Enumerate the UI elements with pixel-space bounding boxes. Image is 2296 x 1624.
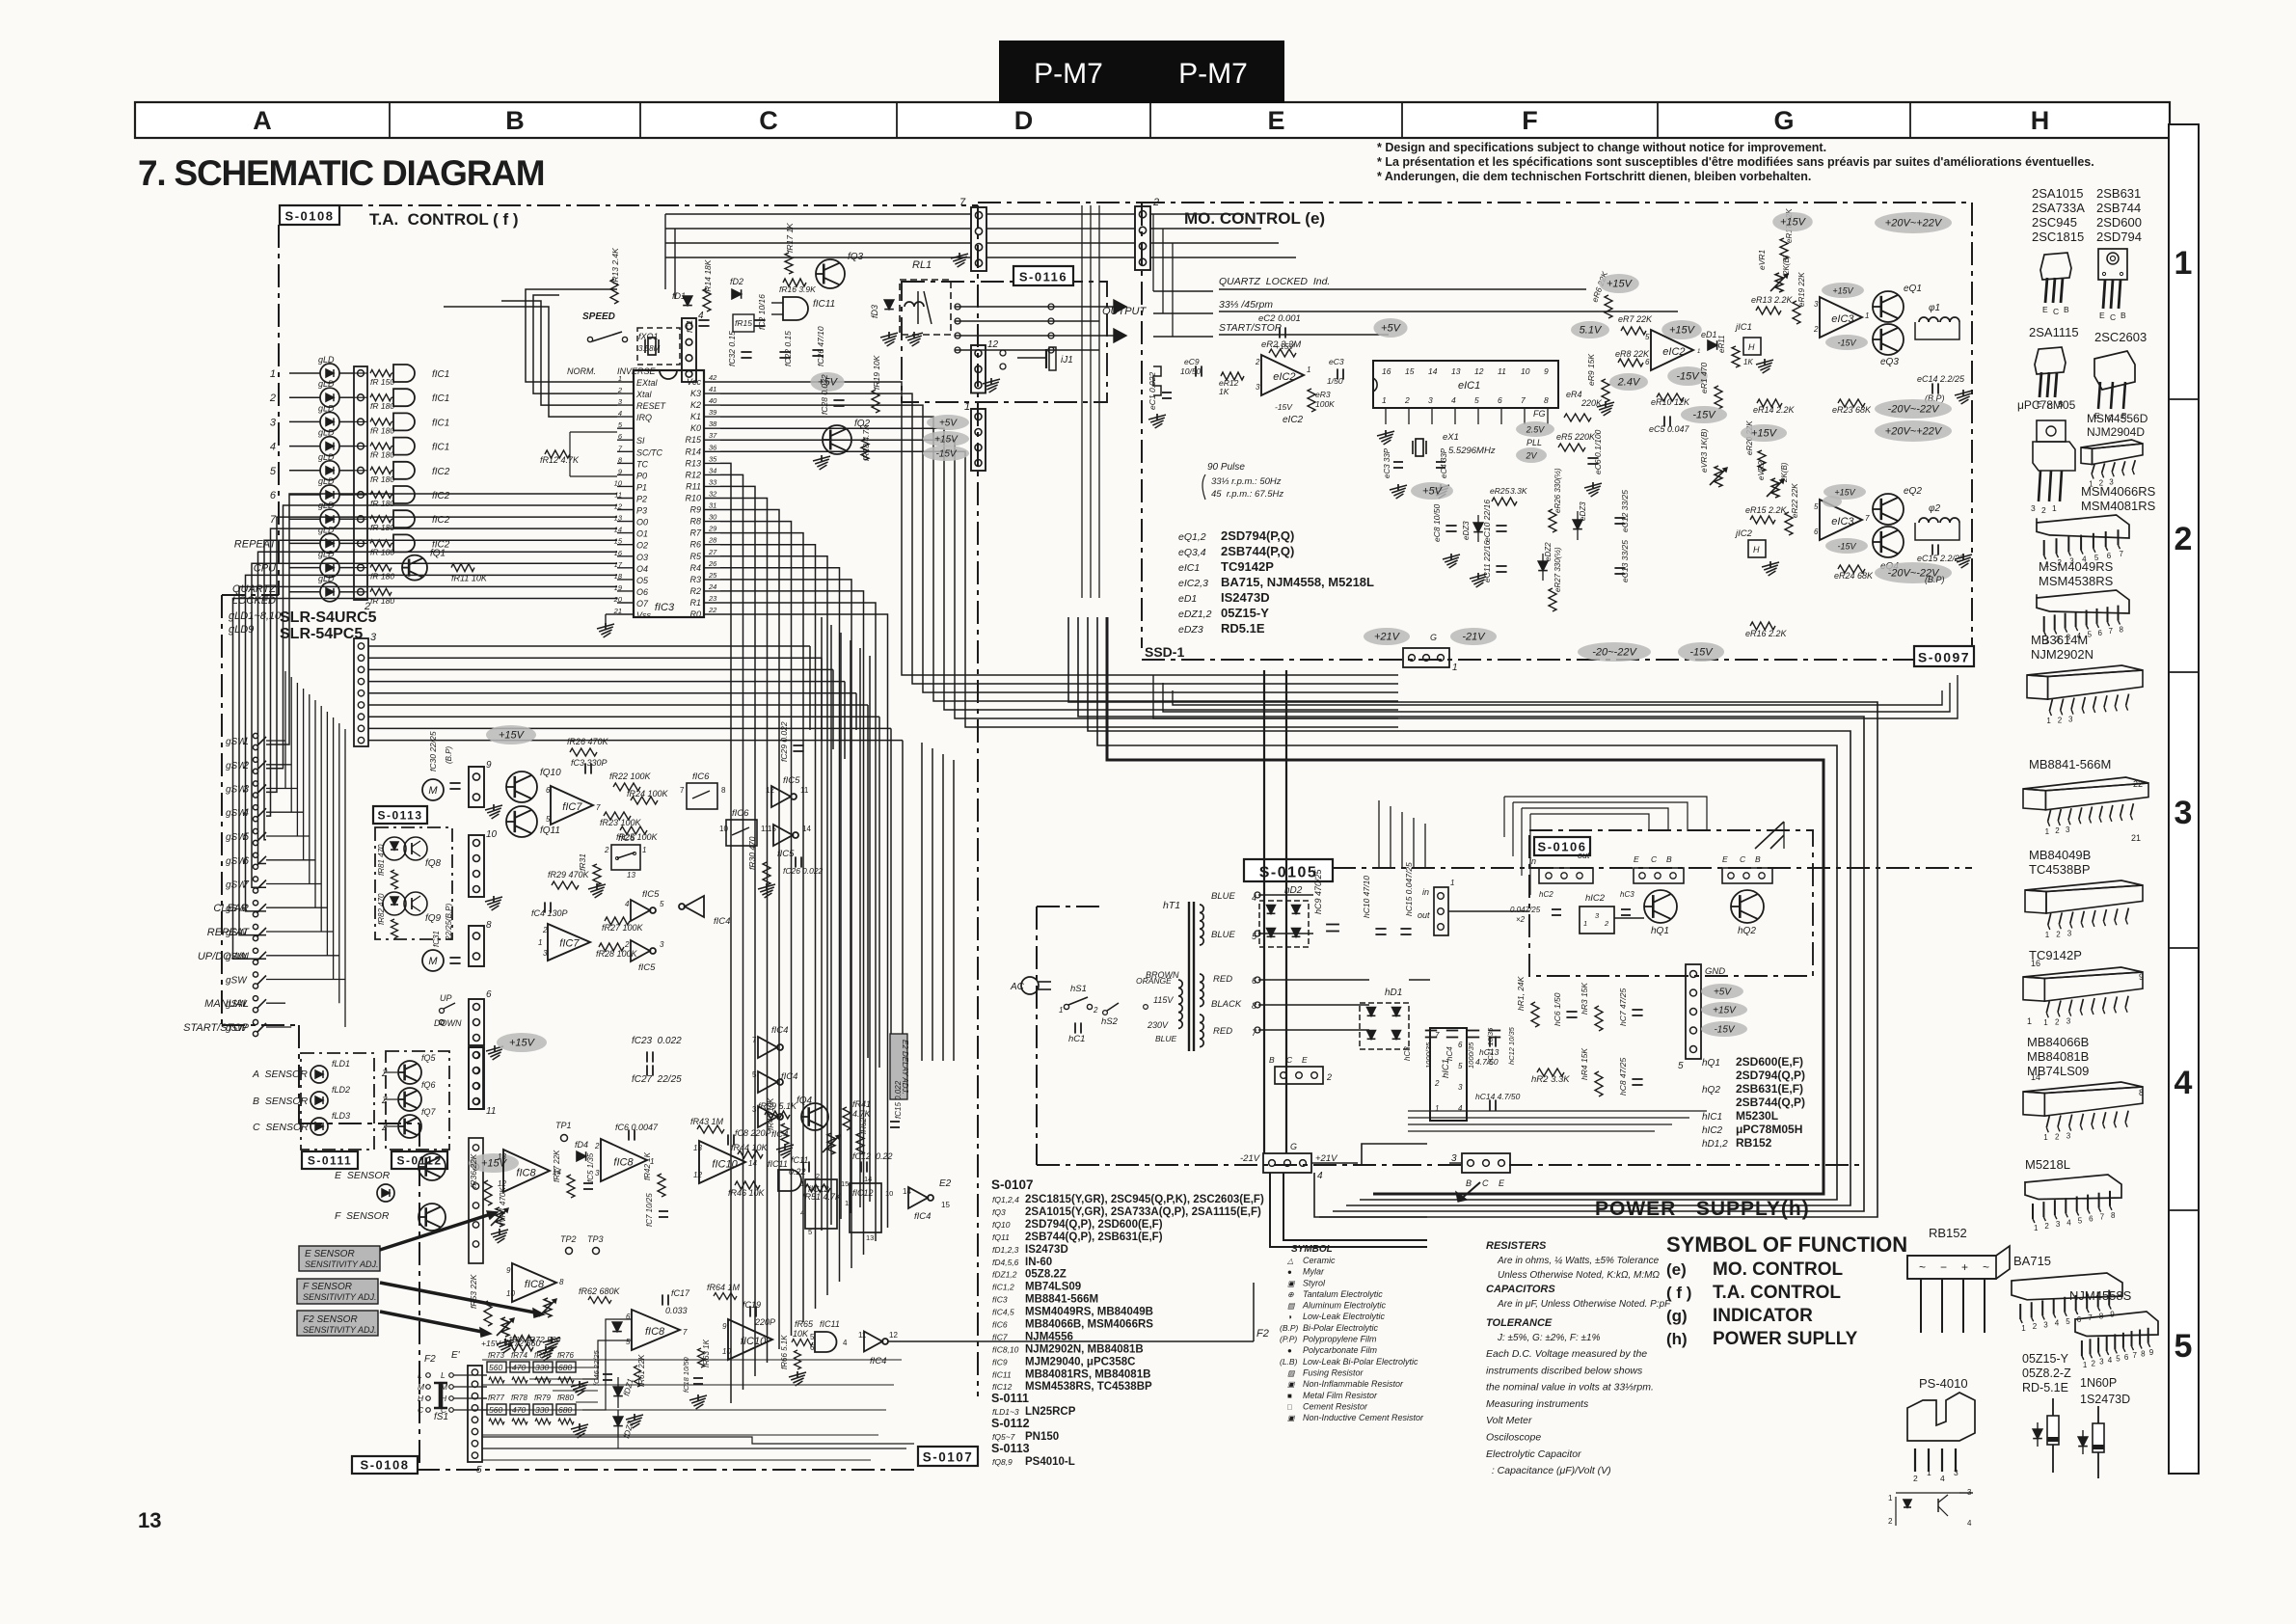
wire corner y1262 — [1314, 1173, 1427, 1217]
antenna mark power — [1755, 822, 1784, 849]
svg-text:S-0111: S-0111 — [991, 1392, 1029, 1405]
fIC3 pin 26 R4 — [704, 567, 720, 569]
svg-text:fR77: fR77 — [488, 1394, 504, 1402]
ground fQ2 — [813, 456, 830, 461]
svg-text:A: A — [253, 106, 272, 135]
svg-text:eR1 470: eR1 470 — [1699, 363, 1709, 393]
svg-text:eR10 12K: eR10 12K — [1651, 397, 1690, 407]
resistor fR61 22K — [635, 1366, 641, 1387]
svg-text:eR15 2.2K: eR15 2.2K — [1745, 505, 1788, 515]
svg-text:fR22 100K: fR22 100K — [609, 771, 652, 781]
label S-0107 bottom — [918, 1447, 978, 1466]
svg-text:C: C — [2053, 307, 2059, 316]
op-amp eIC2 b — [1651, 330, 1693, 370]
svg-text:2: 2 — [1604, 919, 1609, 928]
svg-text:fIC7: fIC7 — [562, 801, 582, 813]
svg-text:fD1,2,3: fD1,2,3 — [992, 1245, 1019, 1255]
svg-text:eC9: eC9 — [1184, 357, 1200, 366]
transistor eQ3 — [1873, 324, 1904, 355]
svg-text:-15V: -15V — [1692, 410, 1716, 421]
resistor fR18 4.7K — [861, 439, 869, 460]
svg-text:6: 6 — [2124, 1353, 2129, 1362]
diode eD1 — [1708, 340, 1717, 350]
board boundary S-0108 T.A. control outline — [339, 204, 978, 206]
resistor eR13 2.2K — [1756, 307, 1781, 314]
svg-text:220P: 220P — [754, 1317, 775, 1327]
resistor eR12 1K — [1221, 372, 1244, 380]
svg-text:Low-Leak Electrolytic: Low-Leak Electrolytic — [1303, 1312, 1386, 1321]
capacitor fC8 220P — [727, 1134, 729, 1145]
connector 9 — [469, 767, 484, 807]
svg-text:eC13 33/25: eC13 33/25 — [1620, 540, 1630, 582]
resistor fR42 1K — [658, 1174, 665, 1197]
fIC3 pin 33 R11 — [704, 485, 720, 487]
svg-text:D: D — [1014, 106, 1034, 135]
svg-text:hT1: hT1 — [1163, 900, 1180, 911]
svg-text:(h): (h) — [1666, 1330, 1688, 1348]
svg-text:30: 30 — [709, 513, 717, 522]
svg-text:BA715, NJM4558, M5218L: BA715, NJM4558, M5218L — [1221, 575, 1374, 589]
connector E C B hQ1 — [1634, 868, 1684, 883]
svg-text:2SD600: 2SD600 — [2096, 215, 2142, 230]
svg-text:Z: Z — [381, 1123, 388, 1132]
svg-text:4: 4 — [270, 442, 276, 453]
capacitor eC3 33P — [1393, 461, 1403, 463]
fIC3 pin 23 R1 — [704, 602, 720, 604]
svg-text:S-0108: S-0108 — [285, 209, 335, 224]
fIC3 pin 41 K3 — [704, 392, 720, 394]
svg-text:gLD: gLD — [318, 476, 335, 486]
board S-0116 outline — [902, 282, 1107, 402]
svg-text:eC3: eC3 — [1329, 357, 1344, 366]
svg-text:10: 10 — [486, 829, 498, 840]
svg-text:fR74: fR74 — [511, 1351, 527, 1360]
board S-0106 outline — [1529, 830, 1813, 976]
svg-text:hC4: hC4 — [1445, 1046, 1454, 1061]
svg-text:0.033: 0.033 — [665, 1306, 688, 1315]
svg-text:fIC4: fIC4 — [771, 1025, 788, 1036]
svg-text:Vss: Vss — [636, 610, 652, 620]
ground connector 9 — [485, 805, 502, 810]
+15V blob phase2 — [1741, 424, 1787, 442]
svg-text:2: 2 — [594, 1142, 600, 1150]
svg-text:Cement Resistor: Cement Resistor — [1303, 1402, 1368, 1412]
svg-text:hC3: hC3 — [1620, 890, 1634, 899]
-20V blob bottom — [1578, 642, 1651, 662]
bridge rectifier hD1 — [1360, 1003, 1409, 1049]
resistor fR81 470 — [392, 870, 398, 889]
svg-text:SI: SI — [636, 436, 645, 446]
svg-text:fC15 0.022: fC15 0.022 — [894, 1080, 903, 1119]
NAND gate fIC1 section 4 — [393, 438, 415, 455]
resistor fR40 10K — [781, 1123, 789, 1145]
svg-text:+20V~+22V: +20V~+22V — [1885, 426, 1943, 438]
svg-text:eIC2: eIC2 — [1273, 371, 1295, 383]
capacitor fC3 330P — [584, 763, 586, 773]
svg-text:fC19: fC19 — [743, 1300, 761, 1310]
svg-text:13: 13 — [614, 514, 623, 523]
svg-text:Unless Otherwise Noted, K:kΩ,: Unless Otherwise Noted, K:kΩ, M:MΩ — [1498, 1270, 1660, 1281]
svg-text:5: 5 — [1458, 1062, 1463, 1070]
svg-text:eR22 22K: eR22 22K — [1791, 483, 1799, 518]
diode fD3 — [884, 300, 894, 310]
wire bus fIC3 right fan to bottom — [720, 463, 731, 1403]
svg-text:25: 25 — [708, 571, 717, 580]
package DIP16 MB84049B — [2025, 880, 2143, 892]
op-amp fIC10 b — [728, 1319, 772, 1360]
svg-text:fR27 100K: fR27 100K — [602, 923, 644, 933]
svg-text:hD1: hD1 — [1385, 988, 1402, 998]
label box S-0116 — [1013, 266, 1073, 285]
wire bus S-0106 nest — [1503, 797, 1505, 837]
svg-text:eIC3: eIC3 — [1831, 313, 1854, 325]
label box S-0105 — [1244, 859, 1333, 881]
svg-text:+15V: +15V — [934, 435, 959, 446]
svg-text:2.4V: 2.4V — [1617, 377, 1641, 389]
op-amp eIC2 a — [1261, 355, 1304, 395]
svg-text:9: 9 — [2149, 1348, 2154, 1357]
svg-text:fC7 10/25: fC7 10/25 — [645, 1193, 654, 1227]
diode fD5 — [612, 1322, 622, 1332]
svg-text:3: 3 — [2031, 503, 2036, 513]
svg-text:G: G — [1290, 1142, 1297, 1151]
svg-text:11: 11 — [614, 491, 622, 500]
svg-text:+5V: +5V — [1381, 323, 1402, 335]
svg-text:fR14 18K: fR14 18K — [703, 259, 713, 294]
svg-text:hQ1: hQ1 — [1702, 1058, 1720, 1069]
svg-text:fD1: fD1 — [672, 291, 686, 301]
svg-text:8: 8 — [2111, 1211, 2116, 1220]
connector strip 3 indicator — [354, 638, 368, 746]
switch gSW5 — [253, 828, 257, 833]
svg-text:Aluminum Electrolytic: Aluminum Electrolytic — [1302, 1301, 1387, 1311]
LED gLD7 — [320, 509, 339, 528]
svg-text:fQ3: fQ3 — [992, 1207, 1006, 1217]
svg-text:B: B — [2120, 311, 2126, 320]
wire power bus internal — [1409, 979, 1430, 981]
svg-text:gLD: gLD — [318, 355, 335, 365]
svg-text:A SENSOR: A SENSOR — [252, 1069, 308, 1080]
LED gLD5 — [320, 461, 339, 480]
E sensor sensitivity adj gray box — [299, 1246, 380, 1271]
resistor fR37 22K — [567, 1175, 575, 1198]
svg-text:+15V: +15V — [499, 730, 526, 742]
svg-text:hC1: hC1 — [1068, 1034, 1085, 1044]
svg-text:(e): (e) — [1666, 1260, 1687, 1279]
resistor fR29 470K — [552, 881, 579, 889]
svg-text:7: 7 — [2109, 627, 2114, 636]
svg-text:RL1: RL1 — [912, 259, 932, 271]
resistor fR39 5.1K — [765, 1111, 790, 1119]
svg-text:IN-60: IN-60 — [1025, 1257, 1052, 1268]
zener eDZ3b — [1573, 520, 1582, 529]
svg-text:* Anderungen, die dem technisc: * Anderungen, die dem technischen Fortsc… — [1377, 170, 1811, 183]
switch gSW3 — [253, 781, 257, 786]
svg-text:1: 1 — [2174, 245, 2193, 282]
svg-text:2: 2 — [604, 846, 609, 854]
svg-text:8: 8 — [559, 1278, 564, 1286]
svg-text:K1: K1 — [690, 412, 701, 421]
svg-text:fC18 10/50: fC18 10/50 — [682, 1356, 690, 1393]
svg-text:fR76: fR76 — [557, 1351, 574, 1360]
svg-text:fIC8: fIC8 — [516, 1167, 536, 1178]
svg-text:TP3: TP3 — [587, 1234, 604, 1244]
svg-text:fLD1: fLD1 — [332, 1059, 350, 1069]
IC eIC1 TC9142P body — [1373, 361, 1558, 408]
svg-text:MB84066B: MB84066B — [2027, 1035, 2089, 1049]
svg-text:fR39 5.1K: fR39 5.1K — [758, 1101, 797, 1111]
svg-text:3.3K: 3.3K — [1510, 486, 1527, 496]
svg-text:fC11: fC11 — [791, 1155, 808, 1165]
diode fD4 — [577, 1151, 586, 1161]
svg-text:5: 5 — [626, 1338, 631, 1346]
svg-text:gLD1~8,10: gLD1~8,10 — [229, 610, 282, 622]
svg-text:NJM2902N, MB84081B: NJM2902N, MB84081B — [1025, 1343, 1144, 1355]
zener fDZ1 — [613, 1387, 623, 1396]
svg-text:eC14 2.2/25: eC14 2.2/25 — [1917, 374, 1965, 384]
svg-text:eQ3,4: eQ3,4 — [1178, 547, 1206, 558]
svg-text:7: 7 — [683, 1328, 688, 1337]
ground resistor banks — [571, 1382, 588, 1387]
svg-text:33: 33 — [709, 477, 717, 486]
svg-text:fC23 0.022: fC23 0.022 — [632, 1036, 682, 1046]
LED fLD1 — [311, 1066, 328, 1083]
svg-text:fQ8: fQ8 — [425, 858, 442, 869]
svg-text:fR15: fR15 — [735, 318, 752, 328]
+15V blob eIC3 — [1822, 283, 1864, 298]
switch gSW1 — [253, 733, 257, 738]
resistor fR36 22K — [484, 1180, 492, 1205]
board S-0111 outline — [301, 1053, 374, 1150]
resistor fR19 10K — [872, 390, 879, 413]
capacitor fC4 130P — [544, 902, 546, 912]
svg-text:PLL: PLL — [1526, 438, 1542, 447]
eIC1 pin 1 — [1385, 408, 1387, 424]
svg-text:14: 14 — [802, 825, 811, 833]
svg-text:M5230L: M5230L — [1736, 1109, 1778, 1123]
svg-text:IS2473D: IS2473D — [1025, 1244, 1068, 1256]
+20V blob phase2 — [1875, 420, 1952, 442]
NAND gate fIC1 section 3 — [393, 413, 415, 430]
svg-text:fC28 0.022: fC28 0.022 — [820, 374, 829, 415]
fIC3 pin 24 R2 — [704, 590, 720, 592]
op-amp fIC7 b — [548, 924, 590, 961]
svg-text:6: 6 — [2098, 629, 2103, 637]
svg-text:2: 2 — [1404, 395, 1410, 405]
ground relay — [880, 333, 898, 338]
svg-text:S-0113: S-0113 — [991, 1442, 1030, 1455]
resistor fR24 100K — [631, 797, 658, 804]
svg-text:fQ1: fQ1 — [430, 549, 446, 559]
svg-text:fR78: fR78 — [511, 1394, 527, 1402]
wire power frame left verticals — [921, 743, 923, 1061]
svg-text:O3: O3 — [636, 553, 648, 562]
svg-text:QUARTZ LOCKED Ind.: QUARTZ LOCKED Ind. — [1219, 276, 1330, 287]
package DIP8 3D — [2081, 440, 2143, 448]
connector 4 speed — [682, 318, 696, 382]
fIC3 pin 4 IRQ — [617, 416, 634, 418]
package TO-220 uPC78M05 — [2037, 420, 2066, 442]
svg-text:13: 13 — [866, 1233, 874, 1242]
svg-text:2SD794(Q,P), 2SD600(E,F): 2SD794(Q,P), 2SD600(E,F) — [1025, 1219, 1163, 1231]
svg-text:-20V~-22V: -20V~-22V — [1888, 404, 1941, 416]
svg-text:Are in ohms, ¼ Watts, ±5% Tole: Are in ohms, ¼ Watts, ±5% Tolerance — [1497, 1255, 1660, 1266]
resistor fR17 1K — [785, 253, 793, 274]
svg-text:eIC1: eIC1 — [1178, 562, 1200, 574]
svg-text:6: 6 — [810, 1343, 815, 1352]
+15V blob eR6 — [1599, 274, 1639, 293]
svg-text:3: 3 — [1256, 383, 1260, 392]
svg-text:hC7 47/25: hC7 47/25 — [1618, 988, 1628, 1026]
svg-text:1: 1 — [2045, 827, 2050, 836]
svg-text:fIC11: fIC11 — [992, 1369, 1012, 1379]
svg-text:Fusing Resistor: Fusing Resistor — [1303, 1368, 1364, 1378]
resistor hR4 15K — [1595, 1071, 1603, 1096]
svg-text:42: 42 — [709, 373, 717, 382]
svg-text:5: 5 — [752, 1070, 757, 1079]
LED fLD3 — [311, 1118, 328, 1135]
svg-text:fIC8,10: fIC8,10 — [992, 1344, 1019, 1354]
resistor hR1 24K — [1531, 1002, 1539, 1027]
svg-text:3: 3 — [2066, 1017, 2071, 1026]
svg-text:MB84081RS, MB84081B: MB84081RS, MB84081B — [1025, 1368, 1150, 1380]
svg-text:E: E — [1499, 1178, 1505, 1188]
svg-text:Measuring instruments: Measuring instruments — [1486, 1398, 1589, 1410]
svg-text:fIC8: fIC8 — [613, 1156, 634, 1168]
svg-text:-15V: -15V — [1837, 542, 1856, 552]
right row ruler — [2169, 124, 2199, 1474]
wire bus 21V rails to connector 4 — [1263, 670, 1265, 1153]
board S-0105 outline — [1333, 867, 1972, 869]
+15V blob eIC2b — [1661, 320, 1702, 339]
svg-text:5: 5 — [2088, 631, 2093, 639]
svg-text:RD5.1E: RD5.1E — [1221, 621, 1265, 636]
wire corner y1186 — [1362, 1144, 1427, 1165]
svg-text:MSM4538RS: MSM4538RS — [2039, 574, 2114, 588]
wire bus MO to power supply wrap frame — [1068, 617, 1877, 1217]
svg-text:R11: R11 — [686, 481, 701, 491]
connector 6 — [469, 999, 484, 1045]
svg-text:1: 1 — [2052, 503, 2057, 513]
svg-text:2SD794(Q,P): 2SD794(Q,P) — [1736, 1069, 1805, 1082]
resistor fR46 10K — [735, 1181, 760, 1189]
svg-text:5: 5 — [660, 900, 664, 908]
svg-text:1: 1 — [1450, 879, 1454, 887]
svg-text:eC6 0.1/100: eC6 0.1/100 — [1593, 429, 1603, 474]
LED gLD3 — [320, 412, 339, 431]
svg-text:10: 10 — [614, 478, 623, 487]
svg-text:■: ■ — [1287, 1392, 1292, 1400]
connector 1 — [971, 409, 986, 471]
fIC3 pin 28 R6 — [704, 544, 720, 546]
label box S-0097 — [1914, 646, 1974, 666]
svg-text:11: 11 — [1498, 366, 1506, 376]
svg-text:8: 8 — [2141, 1350, 2146, 1359]
svg-text:10K: 10K — [793, 1329, 809, 1339]
svg-text:5: 5 — [2116, 1354, 2120, 1363]
svg-text:fR73: fR73 — [488, 1351, 504, 1360]
svg-text:2: 2 — [617, 386, 623, 394]
svg-text:fC4 130P: fC4 130P — [531, 908, 568, 918]
svg-text:gSW: gSW — [226, 856, 248, 867]
-15V blob connector — [923, 446, 969, 461]
svg-text:Xtal: Xtal — [635, 390, 653, 399]
adjust arrow E — [380, 1213, 494, 1250]
output wires S-0116 — [955, 306, 1099, 308]
fIC3 pin 13 O0 — [617, 521, 634, 523]
fIC3 pin 27 R5 — [704, 555, 720, 557]
svg-text:E2: E2 — [939, 1178, 952, 1189]
svg-text:gSW: gSW — [226, 737, 248, 747]
resistor fR4 180 — [370, 443, 392, 449]
svg-text:×2: ×2 — [1516, 915, 1526, 924]
svg-text:2: 2 — [269, 392, 276, 404]
ground connector 6 — [486, 1046, 503, 1051]
svg-text:eDZ3: eDZ3 — [1579, 501, 1587, 521]
svg-text:11: 11 — [486, 1106, 496, 1117]
capacitor fC29 0.022 — [793, 744, 803, 746]
svg-text:28: 28 — [708, 536, 717, 545]
svg-text:1: 1 — [800, 1179, 804, 1188]
svg-text:S-0116: S-0116 — [1019, 270, 1067, 284]
package TO-92 2SA1115 — [2035, 347, 2066, 374]
resistor fR10 180 — [370, 588, 392, 595]
connector 7 top — [971, 207, 986, 271]
svg-text:eR26 330(½): eR26 330(½) — [1553, 468, 1562, 513]
fIC3 pin 14 O1 — [617, 532, 634, 534]
capacitor fC30 22/25 BP — [449, 782, 460, 784]
capacitor fC12 0.22 — [860, 1161, 862, 1172]
svg-text:MO. CONTROL (e): MO. CONTROL (e) — [1184, 209, 1325, 228]
svg-text:C: C — [759, 106, 778, 135]
svg-text:K3: K3 — [690, 389, 701, 398]
transistor fQ4 — [801, 1103, 828, 1130]
svg-text:15: 15 — [614, 537, 623, 546]
svg-text:L: L — [418, 1370, 422, 1380]
transistor hQ2 — [1731, 890, 1764, 923]
optocoupler fQ8 — [383, 837, 406, 860]
svg-text:15: 15 — [841, 1179, 849, 1188]
svg-text:fR19 10K: fR19 10K — [872, 355, 881, 390]
op-amp fIC8 d — [632, 1310, 680, 1350]
wire resistor bank rows — [453, 1374, 487, 1376]
diode fD2 — [732, 289, 742, 299]
svg-text:+15V: +15V — [509, 1038, 536, 1049]
-20V blob mid — [1875, 399, 1952, 419]
svg-text:eC12 33/25: eC12 33/25 — [1620, 490, 1630, 532]
svg-text:2: 2 — [1913, 1474, 1918, 1483]
svg-text:18: 18 — [614, 572, 623, 581]
svg-text:3: 3 — [2067, 930, 2072, 938]
connector in/out power — [1434, 887, 1448, 935]
resistor fR31 470 — [593, 864, 601, 885]
adjust arrow F2 — [380, 1312, 487, 1333]
connector 8 — [469, 926, 484, 966]
svg-text:fIC10: fIC10 — [712, 1158, 738, 1170]
op-amp eIC3 a — [1820, 297, 1862, 338]
switch gSW4 — [253, 805, 257, 810]
connector 11 — [469, 1047, 484, 1109]
label box S-0113 — [373, 806, 427, 824]
svg-text:R12: R12 — [685, 470, 701, 479]
svg-text:4: 4 — [1940, 1474, 1945, 1483]
connector strip indicator board edge 2 — [354, 366, 367, 600]
svg-text:hR1, 24K: hR1, 24K — [1516, 976, 1526, 1011]
svg-text:C: C — [1482, 1178, 1489, 1188]
svg-text:hC9 470/25: hC9 470/25 — [1313, 868, 1323, 914]
svg-text:1: 1 — [2034, 1224, 2039, 1232]
svg-text:M: M — [428, 956, 438, 967]
